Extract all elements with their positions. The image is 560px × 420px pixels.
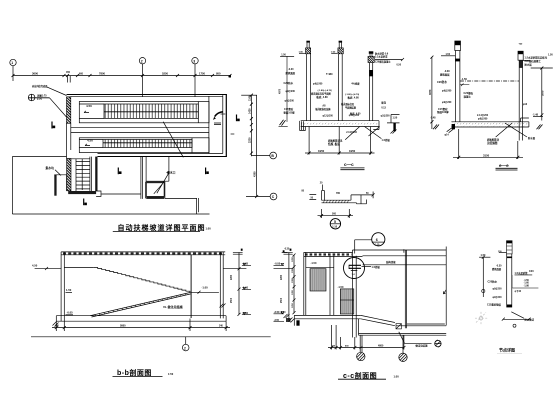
svg-text:1100: 1100 xyxy=(248,95,251,101)
svg-text:1300: 1300 xyxy=(292,289,294,295)
top dim end tick xyxy=(229,75,231,77)
svg-text:1420: 1420 xyxy=(248,108,251,114)
WD faint marks xyxy=(475,312,489,325)
svg-text:7800: 7800 xyxy=(99,71,105,75)
svg-text:-0.05: -0.05 xyxy=(67,310,74,314)
EE left wall body xyxy=(455,51,460,122)
section mark b1 xyxy=(51,122,53,129)
CC2 grid stem 2 xyxy=(402,335,404,353)
left level slashes xyxy=(280,120,286,126)
svg-text:板底_4.80: 板底_4.80 xyxy=(316,95,328,99)
svg-text:详图1:75: 详图1:75 xyxy=(37,94,47,98)
svg-text:建筑面层: 建筑面层 xyxy=(439,72,450,76)
svg-text:φ8@200: φ8@200 xyxy=(478,118,488,121)
svg-text:1:75: 1:75 xyxy=(37,98,42,101)
svg-text:垫层100厚: 垫层100厚 xyxy=(284,110,296,114)
band 2 centerline xyxy=(103,142,192,144)
svg-text:(-1.80)~(-4.70): (-1.80)~(-4.70) xyxy=(318,89,332,92)
svg-text:结构找坡: 结构找坡 xyxy=(386,260,396,264)
BB upper flight landing xyxy=(64,267,93,269)
svg-text:4.50: 4.50 xyxy=(87,139,93,143)
CC2 grid bubble 1 xyxy=(357,352,365,360)
wall W2 body xyxy=(339,54,343,121)
svg-text:节点详图: 节点详图 xyxy=(499,347,515,353)
left level tick xyxy=(280,55,294,57)
svg-text:4970: 4970 xyxy=(279,88,282,94)
svg-text:C20防水: C20防水 xyxy=(488,280,498,284)
svg-text:垫层100厚: 垫层100厚 xyxy=(437,110,449,114)
stair mid rail xyxy=(81,159,83,190)
shaft bottom wall xyxy=(68,191,96,194)
svg-text:2500: 2500 xyxy=(231,297,233,303)
svg-text:φ9@200: φ9@200 xyxy=(442,101,452,104)
CC2 main mid wall xyxy=(353,250,357,338)
BB grid bubble xyxy=(182,344,189,351)
CC2 bottom dim xyxy=(332,325,404,350)
grid connector h1 xyxy=(251,155,269,157)
svg-text:-1.48: -1.48 xyxy=(430,117,436,120)
CC2 left dim column xyxy=(293,255,295,313)
channel bottom bar xyxy=(322,200,357,203)
svg-text:1950: 1950 xyxy=(318,149,325,153)
svg-text:1200: 1200 xyxy=(292,256,294,262)
colA connector xyxy=(223,268,246,270)
CC2 left footing xyxy=(296,320,299,325)
svg-text:5250: 5250 xyxy=(162,71,168,75)
svg-text:见结施图: 见结施图 xyxy=(487,141,498,145)
drain leader xyxy=(157,172,170,193)
dim ticks xyxy=(12,74,232,77)
pit box A diagonal xyxy=(154,184,163,194)
svg-text:板底_4.80: 板底_4.80 xyxy=(348,95,360,99)
svg-text:φ9@200: φ9@200 xyxy=(493,289,503,291)
svg-text:坡向: 坡向 xyxy=(381,101,386,105)
CC dim line xyxy=(305,152,375,154)
svg-text:1:50: 1:50 xyxy=(394,375,400,379)
W1 cap level tick xyxy=(299,52,305,54)
svg-text:结施_板底: 结施_板底 xyxy=(327,142,340,146)
section mark b5 xyxy=(117,168,119,175)
WALL-DETAIL xyxy=(475,241,538,354)
EE right wall stub xyxy=(518,51,523,60)
svg-text:4%找坡: 4%找坡 xyxy=(351,81,360,85)
svg-text:1.50: 1.50 xyxy=(281,53,286,56)
pit box A inner xyxy=(146,183,164,197)
plan outer wall top xyxy=(67,94,227,96)
pit box B xyxy=(54,175,56,196)
svg-text:φ14: φ14 xyxy=(445,134,450,137)
svg-text:-1.60: -1.60 xyxy=(524,283,530,285)
svg-text:1.50: 1.50 xyxy=(446,54,451,56)
WD body xyxy=(507,254,512,308)
right curb bar xyxy=(393,123,395,131)
svg-text:混凝土: 混凝土 xyxy=(464,94,472,98)
svg-text:φ9@200: φ9@200 xyxy=(493,297,503,299)
svg-text:φ13: φ13 xyxy=(523,103,528,106)
grid bubble h2 xyxy=(270,193,277,200)
svg-text:1750: 1750 xyxy=(199,71,205,75)
svg-text:C20防水: C20防水 xyxy=(284,81,294,85)
section mark b2 xyxy=(83,199,85,206)
plan bottom edge xyxy=(98,153,223,155)
EE left wall black segment xyxy=(455,59,460,62)
EE left wall stub xyxy=(455,41,461,51)
svg-text:780: 780 xyxy=(336,192,341,195)
grid bubble 2 xyxy=(139,58,145,64)
CC2 top-left tick xyxy=(282,252,288,254)
svg-text:T=980: T=980 xyxy=(326,74,333,76)
section mark b3 xyxy=(205,168,207,175)
svg-text:2: 2 xyxy=(141,59,143,63)
BB level column B xyxy=(288,252,290,320)
svg-text:-1.98: -1.98 xyxy=(524,285,530,287)
svg-text:c-c剖面图: c-c剖面图 xyxy=(343,371,377,380)
svg-text:5: 5 xyxy=(334,220,336,224)
CC2 ramp xyxy=(361,315,395,325)
svg-text:-1.50: -1.50 xyxy=(461,77,467,81)
svg-text:自动扶梯坡道详图平面图: 自动扶梯坡道详图平面图 xyxy=(118,223,206,232)
BB upper flight steps xyxy=(94,268,190,293)
right dim ticks xyxy=(250,94,258,198)
pit box A sump xyxy=(146,197,164,199)
svg-text:2280: 2280 xyxy=(231,274,233,280)
svg-text:1:10: 1:10 xyxy=(375,243,380,246)
CC2 grid bubble 2 xyxy=(399,353,407,361)
wall W1 cap xyxy=(306,48,311,54)
band 1 centerline xyxy=(104,111,198,113)
middle balustrade xyxy=(71,127,209,132)
apron step horizontals xyxy=(101,194,196,199)
svg-text:φ9@200: φ9@200 xyxy=(313,82,323,85)
stair shaft landing xyxy=(67,158,90,160)
apron left boundary xyxy=(11,157,13,215)
svg-text:-0.30: -0.30 xyxy=(284,249,290,251)
svg-text:φ8@200: φ8@200 xyxy=(285,100,295,103)
BB top slab xyxy=(61,252,225,255)
svg-text:底板配筋详: 底板配筋详 xyxy=(486,138,500,142)
SEC-BB xyxy=(31,249,293,377)
CC2 grid stem 1 xyxy=(360,335,362,352)
EE bottom dim xyxy=(459,129,518,159)
band 1 newel xyxy=(79,104,104,118)
top dimension line xyxy=(13,75,231,77)
svg-text:2500: 2500 xyxy=(281,297,283,303)
band 2 tread strip xyxy=(103,140,192,148)
shaft right wall fill xyxy=(95,157,97,191)
CC2 floor right xyxy=(396,324,446,326)
left witness line xyxy=(286,56,288,122)
SEC-EE xyxy=(429,41,554,170)
grid connector h2 xyxy=(246,196,270,198)
BB left wall xyxy=(61,252,64,321)
svg-text:φ2@200: φ2@200 xyxy=(381,115,391,117)
svg-text:4300: 4300 xyxy=(254,171,257,177)
svg-text:1:50: 1:50 xyxy=(331,52,336,54)
wall W2 column stub xyxy=(339,42,341,48)
svg-text:1000: 1000 xyxy=(292,277,294,283)
svg-text:2280: 2280 xyxy=(281,274,283,280)
EE slab left end xyxy=(452,124,455,129)
slab right footing xyxy=(373,121,379,130)
svg-text:1950: 1950 xyxy=(349,149,356,153)
flow arrow arc xyxy=(215,112,223,117)
EE dash-dot floor line xyxy=(460,80,519,82)
witness stubs xyxy=(68,76,71,83)
CC2 wall arrow xyxy=(443,290,446,294)
colB connector xyxy=(274,268,293,270)
svg-text:-3.50: -3.50 xyxy=(280,311,286,314)
band 1 tread strip xyxy=(104,104,198,118)
BB ground line xyxy=(31,336,271,338)
band1 hatch end line xyxy=(197,102,199,123)
svg-text:φ9@200: φ9@200 xyxy=(442,89,452,92)
CC2 left wall xyxy=(304,252,306,315)
CC2 lower slab xyxy=(359,319,447,335)
svg-text:底板配筋详见: 底板配筋详见 xyxy=(327,139,343,143)
CC2 door2 xyxy=(340,289,354,314)
svg-text:c—c: c—c xyxy=(344,162,354,167)
svg-text:5800: 5800 xyxy=(120,325,126,328)
wall W3 black segment xyxy=(369,70,372,76)
diagonal leader across bands xyxy=(163,122,183,158)
BB level column A xyxy=(238,252,240,314)
svg-text:1:2找坡: 1:2找坡 xyxy=(372,265,381,269)
svg-text:1:2找坡: 1:2找坡 xyxy=(382,138,391,142)
svg-text:0.50: 0.50 xyxy=(397,65,402,67)
CC2 top slab left xyxy=(304,253,363,257)
escalator band 1 housing xyxy=(79,102,209,123)
EE left level tick xyxy=(441,55,455,57)
svg-text:1: 1 xyxy=(11,61,13,65)
escalator band 2 housing xyxy=(79,138,209,153)
svg-text:1.50: 1.50 xyxy=(481,254,486,257)
svg-text:2: 2 xyxy=(184,346,186,350)
svg-text:1250: 1250 xyxy=(292,302,294,308)
svg-text:e—e: e—e xyxy=(499,163,509,168)
MID-DETAIL xyxy=(302,183,375,230)
EE right wall black segment xyxy=(519,60,522,68)
apron bottom line xyxy=(12,213,209,215)
svg-text:-1.50: -1.50 xyxy=(311,261,317,265)
stair rungs xyxy=(76,162,90,189)
EE slab right end xyxy=(521,118,529,127)
CC2 top-left room line xyxy=(306,266,334,268)
grid stem 2 xyxy=(142,64,144,97)
BB dim line xyxy=(52,327,230,329)
svg-text:VL,做法见结施: VL,做法见结施 xyxy=(163,304,183,309)
svg-text:防水层: 防水层 xyxy=(525,62,533,66)
svg-text:6: 6 xyxy=(376,238,378,242)
landing level mark xyxy=(214,123,221,125)
CC2 grid stub top xyxy=(403,249,405,253)
svg-text:C15素砼垫层: C15素砼垫层 xyxy=(487,303,502,307)
EE left dim line xyxy=(431,57,433,129)
CC2 door1 xyxy=(310,269,326,291)
BB right wall xyxy=(220,252,223,319)
svg-text:1:50: 1:50 xyxy=(206,227,212,231)
WD cap xyxy=(507,241,513,254)
wall W3 cap xyxy=(368,56,374,62)
band 2 newel xyxy=(79,138,192,153)
svg-text:做法见结施: 做法见结施 xyxy=(415,343,429,347)
grid stem 3 xyxy=(194,64,196,97)
svg-text:C20: C20 xyxy=(529,270,534,273)
wall W1 body xyxy=(306,54,310,121)
CC2 mid wall 1 xyxy=(330,256,334,315)
CC2 bottom leader xyxy=(399,332,432,344)
BB right tick xyxy=(220,304,226,308)
EE floor tick xyxy=(460,84,470,87)
svg-text:C20防水: C20防水 xyxy=(437,80,447,84)
slab dot hatch xyxy=(301,121,379,126)
svg-text:4.50: 4.50 xyxy=(86,104,92,108)
right curb step xyxy=(387,115,400,123)
right dim line a xyxy=(250,95,252,156)
svg-text:3: 3 xyxy=(193,59,195,63)
wall W3 column stub xyxy=(370,54,372,57)
CC2 big detail circle xyxy=(344,258,365,279)
svg-text:3150: 3150 xyxy=(483,153,490,157)
svg-text:450: 450 xyxy=(66,71,71,74)
CC leader right xyxy=(365,127,382,139)
colB extra ticks xyxy=(274,321,285,323)
detail bottom dim xyxy=(322,209,350,218)
svg-text:-1.48: -1.48 xyxy=(533,114,539,117)
svg-text:(-1.80)~(-4.70): (-1.80)~(-4.70) xyxy=(345,93,359,96)
BB witness xyxy=(56,319,226,332)
CC witness lines xyxy=(309,127,371,155)
SEC-CC xyxy=(279,41,405,170)
wall W3 body xyxy=(369,63,372,122)
svg-text:1.50: 1.50 xyxy=(66,288,72,292)
svg-text:600: 600 xyxy=(79,72,84,75)
svg-text:-1.50: -1.50 xyxy=(338,285,344,289)
CC2 far right edge xyxy=(445,247,447,326)
landing divider xyxy=(208,96,210,153)
left wall plain middle xyxy=(67,123,71,158)
svg-text:C20细石混凝土: C20细石混凝土 xyxy=(525,59,542,63)
CC leader left xyxy=(345,127,360,140)
apron step verticals xyxy=(197,198,199,214)
slab left footing xyxy=(300,121,306,131)
svg-text:-0.30: -0.30 xyxy=(288,68,294,71)
svg-text:500: 500 xyxy=(332,213,337,216)
EE bottom slab xyxy=(451,122,529,127)
plan right wall xyxy=(225,94,227,156)
EE right wall body xyxy=(519,60,522,140)
svg-text:3870: 3870 xyxy=(429,89,432,95)
grid bubble 3 xyxy=(192,58,198,64)
svg-text:防水层: 防水层 xyxy=(528,136,536,140)
svg-text:建筑面层: 建筑面层 xyxy=(285,71,296,75)
svg-text:3600: 3600 xyxy=(32,71,38,75)
BB bottom slab end slashes xyxy=(53,322,59,327)
channel upstand xyxy=(322,191,325,201)
svg-text:b-b剖面图: b-b剖面图 xyxy=(117,368,152,377)
CC2 gutter in circle xyxy=(349,265,361,268)
WD left dim xyxy=(482,257,484,297)
section mark b4 xyxy=(236,115,238,122)
detail callout circle xyxy=(28,94,35,101)
CC2 detail bubble top xyxy=(372,233,385,246)
wall W2 cap xyxy=(338,48,343,54)
svg-text:-0.30: -0.30 xyxy=(496,265,502,268)
WD bottom dim xyxy=(503,318,529,320)
apron bottom-left edge xyxy=(12,156,66,158)
svg-text:C20细石: C20细石 xyxy=(464,91,474,95)
BB mid column xyxy=(190,255,192,318)
WD left tick xyxy=(479,256,490,258)
BB bottom slab xyxy=(56,316,226,322)
CC bottom slab xyxy=(301,121,379,127)
lower room box xyxy=(146,157,169,182)
BB mid landing xyxy=(190,291,219,293)
left wall hatched lower xyxy=(67,159,71,191)
detail bubble xyxy=(330,219,340,229)
CC2 bubble connector xyxy=(355,240,372,254)
CC2 target circle xyxy=(435,340,441,346)
svg-text:-1.00: -1.00 xyxy=(202,285,209,289)
lower room wall xyxy=(141,157,143,199)
svg-text:4800: 4800 xyxy=(378,345,384,348)
grid stem 1 xyxy=(12,66,14,81)
EE leaders below slab xyxy=(505,123,527,137)
pit box A outer xyxy=(146,182,165,198)
wall W1 column stub xyxy=(307,42,309,48)
svg-text:-3.55: -3.55 xyxy=(274,320,280,322)
svg-text:3870: 3870 xyxy=(542,90,545,96)
svg-text:1:50: 1:50 xyxy=(168,372,174,376)
svg-text:950: 950 xyxy=(216,71,221,75)
CC2 floor left xyxy=(294,315,360,318)
callout leader xyxy=(50,98,67,118)
svg-text:φ12@200: φ12@200 xyxy=(323,115,334,117)
svg-text:集水坑: 集水坑 xyxy=(45,166,55,170)
svg-text:1:10: 1:10 xyxy=(332,226,337,229)
EE right dim line xyxy=(541,68,543,121)
channel right step xyxy=(351,195,367,204)
CC2 right beam bottom xyxy=(363,264,447,266)
svg-text:1:2水泥砂浆: 1:2水泥砂浆 xyxy=(515,271,529,275)
CC2 gutter leader xyxy=(362,266,372,268)
svg-text:2230: 2230 xyxy=(248,137,251,143)
WD bottom xyxy=(507,305,512,308)
grid bubble 1 xyxy=(10,59,16,65)
label leader xyxy=(47,87,67,96)
CC2 right wall xyxy=(405,250,406,328)
stair stringers xyxy=(76,157,91,191)
svg-text:1000: 1000 xyxy=(292,267,294,273)
SEC-CC2 xyxy=(280,233,446,380)
svg-text:1.50: 1.50 xyxy=(393,117,398,120)
svg-text:4.50: 4.50 xyxy=(32,264,38,268)
BB lower chord xyxy=(90,293,191,318)
right dim top bar xyxy=(241,94,257,96)
shaft footing xyxy=(96,191,101,196)
svg-text:1:2水泥砂浆压实抹光: 1:2水泥砂浆压实抹光 xyxy=(525,55,548,59)
CC2 ramp gutter xyxy=(396,324,401,329)
right dim line b xyxy=(256,95,258,196)
plan inner wall top xyxy=(71,95,223,97)
BB grid stem xyxy=(185,337,187,344)
left wall hatched upper xyxy=(67,97,71,124)
grid bubble h1 xyxy=(270,152,277,159)
PLAN-VIEW xyxy=(10,58,277,232)
svg-text:φ9@200: φ9@200 xyxy=(286,90,296,93)
svg-text:1.50: 1.50 xyxy=(548,54,553,57)
svg-text:V.13: V.13 xyxy=(381,108,386,110)
CC2 top slab right xyxy=(353,250,447,256)
